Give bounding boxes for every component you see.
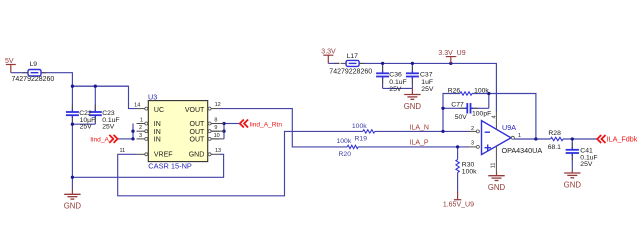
svg-text:25V: 25V	[389, 86, 402, 93]
svg-text:R30: R30	[462, 162, 475, 169]
svg-text:L17: L17	[347, 53, 359, 60]
svg-text:10: 10	[214, 133, 220, 139]
svg-text:4: 4	[492, 115, 498, 118]
svg-text:GND: GND	[564, 180, 582, 189]
svg-text:3.3V_U9: 3.3V_U9	[438, 50, 465, 57]
svg-text:100k: 100k	[462, 169, 477, 176]
svg-text:CASR 15-NP: CASR 15-NP	[148, 162, 192, 171]
svg-text:GND: GND	[488, 183, 506, 192]
svg-text:R20: R20	[339, 151, 352, 158]
svg-text:12: 12	[215, 102, 221, 108]
svg-text:U3: U3	[148, 93, 157, 102]
svg-text:1: 1	[140, 118, 143, 124]
svg-text:25V: 25V	[421, 86, 434, 93]
svg-text:25V: 25V	[580, 161, 593, 168]
svg-text:R19: R19	[355, 135, 368, 142]
svg-text:2: 2	[471, 126, 474, 132]
svg-text:R26: R26	[448, 88, 461, 95]
svg-text:C36: C36	[389, 72, 402, 79]
svg-text:68.1: 68.1	[548, 144, 561, 151]
svg-text:100pF: 100pF	[472, 111, 491, 118]
svg-text:1.65V_U9: 1.65V_U9	[443, 201, 474, 208]
svg-text:11: 11	[491, 163, 497, 169]
svg-text:74279228260: 74279228260	[329, 69, 372, 76]
svg-text:U9A: U9A	[502, 123, 516, 132]
svg-text:OPA4340UA: OPA4340UA	[502, 146, 543, 155]
svg-text:ILA_P: ILA_P	[410, 140, 429, 147]
svg-text:74279228260: 74279228260	[12, 76, 55, 83]
svg-text:C23: C23	[102, 110, 115, 117]
svg-text:Iind_A_Rtn: Iind_A_Rtn	[249, 122, 282, 129]
svg-text:VOUT: VOUT	[185, 107, 205, 114]
svg-text:C22: C22	[79, 110, 92, 117]
svg-text:OUT: OUT	[190, 121, 206, 128]
svg-text:3: 3	[139, 133, 142, 139]
svg-text:UC: UC	[154, 107, 164, 114]
svg-text:14: 14	[134, 103, 140, 109]
svg-text:50V: 50V	[455, 114, 468, 121]
svg-text:GND: GND	[404, 102, 422, 111]
svg-text:25V: 25V	[80, 124, 93, 131]
svg-text:C77: C77	[451, 102, 464, 109]
svg-text:13: 13	[215, 148, 221, 154]
svg-text:1: 1	[518, 133, 521, 139]
svg-text:9: 9	[214, 125, 217, 131]
svg-text:GND: GND	[189, 152, 205, 159]
svg-text:8: 8	[214, 118, 217, 124]
svg-text:3: 3	[471, 140, 474, 146]
svg-text:0.1uF: 0.1uF	[389, 79, 406, 86]
svg-text:5V: 5V	[5, 58, 14, 65]
svg-text:2: 2	[139, 125, 142, 131]
svg-text:IN: IN	[154, 129, 161, 136]
svg-text:11: 11	[119, 148, 125, 154]
svg-text:ILA_Fdbk: ILA_Fdbk	[607, 135, 638, 144]
svg-text:100k: 100k	[474, 88, 489, 95]
svg-text:C37: C37	[420, 72, 433, 79]
svg-text:R28: R28	[548, 130, 561, 137]
svg-text:L9: L9	[30, 61, 38, 68]
svg-text:3.3V: 3.3V	[321, 49, 336, 56]
svg-text:GND: GND	[64, 202, 82, 211]
svg-text:100k: 100k	[352, 123, 367, 130]
svg-text:ILA_N: ILA_N	[410, 124, 429, 131]
svg-text:25V: 25V	[102, 124, 115, 131]
svg-text:IN: IN	[154, 137, 161, 144]
svg-text:OUT: OUT	[190, 137, 206, 144]
svg-text:OUT: OUT	[190, 129, 206, 136]
svg-text:VREF: VREF	[154, 152, 173, 159]
svg-text:1uF: 1uF	[421, 79, 433, 86]
svg-text:IN: IN	[154, 121, 161, 128]
svg-text:100k: 100k	[337, 138, 352, 145]
svg-text:Iind_A: Iind_A	[90, 136, 109, 143]
